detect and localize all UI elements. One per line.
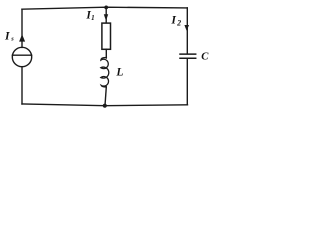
svg-text:C: C <box>201 51 209 63</box>
svg-text:I: I <box>4 30 10 43</box>
svg-text:L: L <box>115 67 123 79</box>
svg-text:I: I <box>170 13 176 27</box>
svg-text:2: 2 <box>176 19 181 28</box>
svg-text:s: s <box>10 35 14 42</box>
svg-text:1: 1 <box>91 14 95 22</box>
